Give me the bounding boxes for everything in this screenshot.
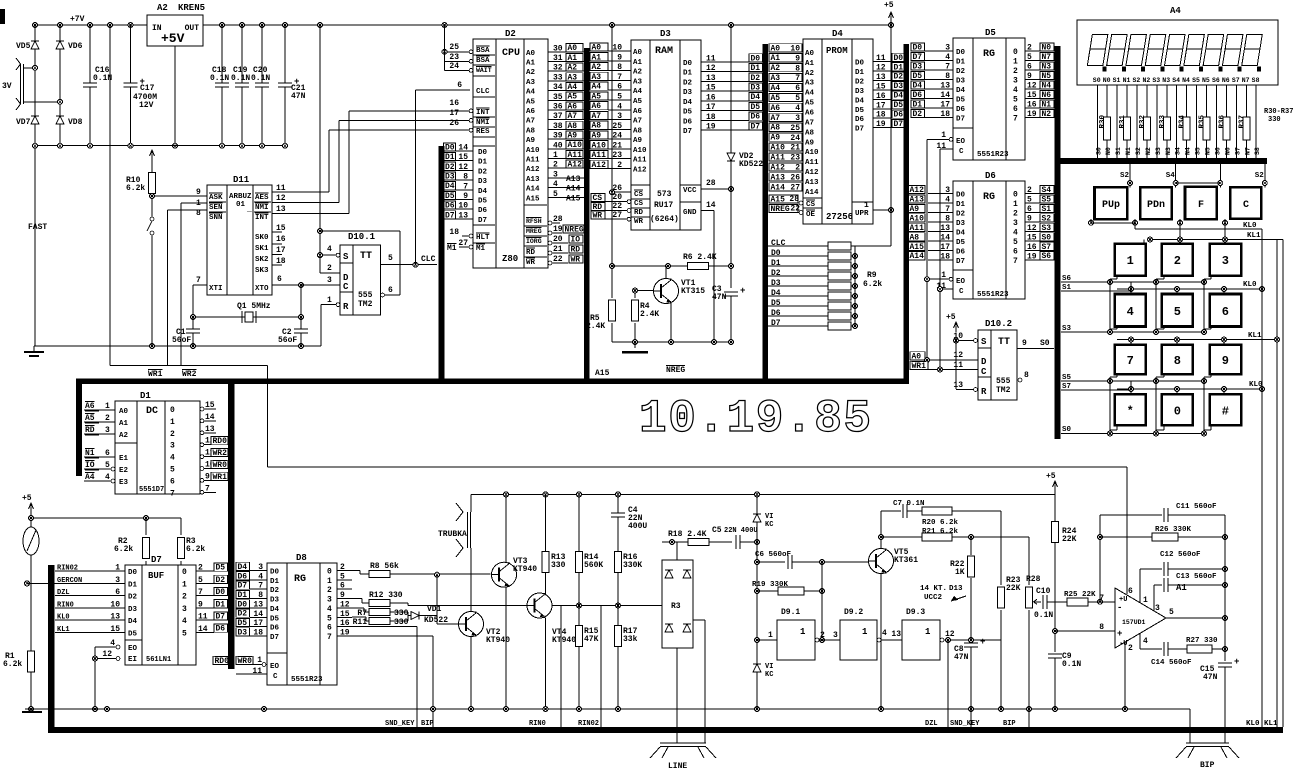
svg-text:D3: D3 [270,597,280,605]
svg-text:16: 16 [340,619,350,628]
svg-text:D7: D7 [478,217,487,225]
svg-text:A5: A5 [526,98,536,106]
svg-text:S2: S2 [1042,214,1052,223]
svg-text:D6: D6 [956,106,966,114]
svg-text:4: 4 [1143,637,1148,646]
svg-text:A8: A8 [568,122,578,131]
svg-text:A1: A1 [771,54,781,63]
IC D6 register 5551R23 [953,181,1025,299]
svg-text:D1: D1 [683,70,693,78]
wire C11 node vertical [1099,515,1101,602]
svg-text:D6: D6 [751,113,761,122]
svg-text:5: 5 [1013,96,1018,105]
svg-text:R30-R37: R30-R37 [1264,108,1293,116]
svg-text:N3: N3 [1162,77,1170,84]
svg-text:N3: N3 [1042,62,1052,71]
svg-text:N5: N5 [1042,72,1052,81]
wire BIP from D8 [352,635,433,637]
svg-text:8: 8 [1024,371,1029,380]
svg-text:6: 6 [1027,205,1032,214]
svg-text:TM2: TM2 [996,386,1011,395]
svg-text:4: 4 [170,454,175,463]
IC D7 buffer 561LN1 [125,565,196,665]
svg-text:WR: WR [571,255,581,264]
svg-text:6: 6 [1013,247,1018,256]
svg-text:D1: D1 [128,581,138,589]
svg-text:15: 15 [1027,91,1037,100]
svg-text:S: S [981,337,987,347]
svg-text:BSA: BSA [476,57,490,65]
svg-text:A6: A6 [805,109,815,117]
svg-text:12: 12 [706,64,716,73]
svg-text:10: 10 [790,44,800,53]
svg-text:D0: D0 [913,43,923,52]
wire D8 outputs [337,570,352,572]
svg-text:C17: C17 [140,84,155,93]
svg-text:D6: D6 [771,309,781,318]
bus D8 vertical V6 [228,379,235,669]
svg-text:D5: D5 [238,619,248,628]
svg-text:11: 11 [876,54,886,63]
svg-text:C11 560oF: C11 560oF [1176,503,1217,511]
svg-text:157UD1: 157UD1 [1122,619,1146,626]
svg-text:WR1: WR1 [912,362,927,371]
resistor R3 [180,518,182,535]
svg-text:KC: KC [765,521,773,529]
svg-text:S8: S8 [1252,77,1260,84]
svg-text:19: 19 [706,123,716,132]
svg-text:WR: WR [526,259,536,267]
svg-text:S4: S4 [1175,147,1182,155]
svg-text:A1: A1 [526,60,536,68]
svg-text:+5: +5 [22,494,32,503]
svg-text:D9.1: D9.1 [781,608,800,617]
svg-text:D5: D5 [270,615,280,623]
svg-text:INT: INT [476,109,490,117]
svg-text:1: 1 [925,627,931,637]
svg-text:D0: D0 [751,54,761,63]
svg-text:KL1: KL1 [1264,720,1278,728]
svg-text:8: 8 [795,64,800,73]
svg-text:A2: A2 [526,69,536,77]
wire D7 inputs [55,570,125,572]
svg-text:A3: A3 [568,73,578,82]
wire R12 to VT4 base [390,602,408,604]
capacitor C10 0.1N [1043,595,1048,609]
wire VT4 base row right [552,605,662,607]
svg-text:SEN: SEN [209,204,223,212]
svg-text:10: 10 [110,600,120,609]
svg-text:S0: S0 [1062,426,1072,434]
svg-text:330: 330 [394,609,409,618]
svg-text:A12: A12 [526,166,540,174]
svg-text:A10: A10 [568,141,583,150]
svg-text:A12: A12 [633,166,647,174]
svg-text:XTO: XTO [255,285,269,293]
wire R8 row [352,570,360,572]
svg-text:12: 12 [102,650,112,659]
svg-text:16: 16 [1027,101,1037,110]
svg-text:A0: A0 [526,50,536,58]
svg-text:9: 9 [1222,354,1229,368]
svg-text:6: 6 [340,582,345,591]
svg-text:S6: S6 [1042,252,1052,261]
svg-text:VCC: VCC [683,187,697,195]
svg-text:D2: D2 [505,29,516,39]
IC D4 PROM 27256 [803,39,873,224]
svg-text:22: 22 [612,202,622,211]
svg-text:D3: D3 [128,606,138,614]
svg-text:NREG: NREG [565,225,584,234]
svg-text:A7: A7 [568,112,578,121]
svg-text:0: 0 [170,406,175,415]
svg-text:A2: A2 [592,63,602,72]
svg-text:15: 15 [1027,233,1037,242]
svg-text:3: 3 [1155,604,1160,613]
svg-text:9: 9 [795,54,800,63]
svg-text:11: 11 [936,142,946,151]
svg-text:7: 7 [205,484,210,493]
svg-text:S5: S5 [1195,147,1202,155]
wire regulator ground [174,46,176,146]
svg-text:18: 18 [276,257,286,266]
svg-text:D5: D5 [478,198,488,206]
svg-text:6.2k: 6.2k [186,545,205,554]
capacitor C17 [130,25,132,146]
svg-text:KL0: KL0 [57,614,70,622]
svg-text:1K: 1K [955,568,965,577]
svg-text:A5: A5 [633,98,643,106]
svg-text:S6: S6 [1214,147,1221,155]
svg-text:19: 19 [1027,110,1037,119]
svg-text:23: 23 [790,154,800,163]
wire bridge top stub [676,542,678,560]
svg-text:3: 3 [833,631,838,640]
svg-text:R: R [981,387,987,397]
wire D5 output pins to bus [1025,50,1040,52]
svg-text:SND_KEY: SND_KEY [385,720,415,728]
resistor R5 [609,300,616,321]
svg-text:EO: EO [270,663,280,671]
svg-text:A13: A13 [805,179,819,187]
svg-text:A9: A9 [633,137,643,145]
resistor R14 560K [578,494,580,551]
svg-text:26: 26 [449,119,459,128]
wire keypad row2 top KL0 [1117,288,1262,290]
svg-text:D1: D1 [771,259,781,268]
svg-text:A9: A9 [526,137,536,145]
capacitor C12 560pF [1140,568,1162,570]
svg-text:D3: D3 [956,220,966,228]
bridge R3 [662,560,693,648]
svg-text:D7: D7 [238,582,248,591]
svg-text:A14: A14 [771,183,786,192]
svg-text:13: 13 [953,381,963,390]
resistor R10 [151,152,153,196]
svg-text:A8: A8 [592,122,602,131]
svg-text:D1: D1 [855,69,865,77]
svg-text:A15: A15 [566,194,581,203]
svg-text:S1: S1 [1042,205,1052,214]
svg-text:D0: D0 [238,600,248,609]
svg-text:VI: VI [765,663,773,671]
svg-text:D2: D2 [913,110,923,119]
svg-text:M1: M1 [447,244,457,253]
svg-text:D4: D4 [913,81,923,90]
bus keypad vertical V5 [1055,46,1061,439]
svg-text:2: 2 [1027,186,1032,195]
svg-text:5: 5 [1169,608,1174,617]
svg-text:A11: A11 [568,151,583,160]
svg-text:A11: A11 [910,224,925,233]
svg-text:14 KT.: 14 KT. [920,585,947,593]
svg-text:0: 0 [1013,48,1018,57]
button 4 [1115,294,1146,327]
svg-text:WR1: WR1 [148,370,163,379]
svg-text:A4: A4 [771,84,781,93]
svg-text:A12: A12 [568,161,583,170]
capacitor C16 [89,25,91,146]
svg-text:C: C [981,367,987,377]
svg-text:KL0: KL0 [1249,381,1263,389]
svg-text:6: 6 [115,588,120,597]
svg-text:5551R23: 5551R23 [977,291,1009,299]
diode VD5 [31,41,39,49]
svg-text:RD0: RD0 [215,657,230,666]
wire RAM address pins from bus [590,43,608,51]
capacitor C3 [724,292,738,297]
button # [1210,394,1242,425]
wire R21 to R28 [1028,537,1030,585]
svg-text:D2: D2 [956,211,966,219]
wire long control y467 [267,365,269,467]
svg-text:RD: RD [634,209,644,217]
svg-text:1: 1 [327,296,332,305]
7seg digit 7 [1206,35,1224,50]
ground mic [25,708,47,710]
svg-text:OUT: OUT [185,24,200,33]
wire RAM data pins to bus [701,61,749,63]
svg-text:R36: R36 [1218,115,1226,129]
svg-text:S2: S2 [1120,172,1130,180]
diode VI KC upper [756,494,758,542]
svg-text:KC: KC [765,671,773,679]
svg-text:A6: A6 [633,108,643,116]
svg-text:D5: D5 [128,630,138,638]
op-amp A1 157UD1 [1115,588,1166,648]
svg-text:D3: D3 [855,88,865,96]
svg-text:VI: VI [765,513,773,521]
svg-text:SK3: SK3 [255,267,269,275]
svg-text:WR1: WR1 [213,473,228,482]
svg-text:TRUBKA: TRUBKA [438,530,467,539]
svg-text:D5: D5 [894,101,904,110]
svg-text:27: 27 [790,183,800,192]
svg-text:S7: S7 [1042,243,1052,252]
svg-text:GERCON: GERCON [57,577,82,585]
svg-text:9: 9 [1027,214,1032,223]
svg-text:A9: A9 [910,205,920,214]
svg-text:A0: A0 [805,50,815,58]
svg-text:S8: S8 [1254,147,1261,155]
svg-text:D9.2: D9.2 [844,608,863,617]
svg-text:S0: S0 [1042,233,1052,242]
svg-text:NMI: NMI [476,119,490,127]
svg-text:KT361: KT361 [894,556,918,565]
button 7 [1115,345,1146,374]
svg-text:25: 25 [790,124,800,133]
svg-text:A13: A13 [771,173,786,182]
svg-text:R9: R9 [867,271,877,280]
button 3 [1210,244,1242,276]
wire SND_KEY from D8 [352,626,417,628]
7seg digit 2 [1109,35,1127,50]
svg-text:5: 5 [198,576,203,585]
svg-text:D4: D4 [956,87,966,95]
svg-text:5551R23: 5551R23 [291,676,323,684]
svg-text:RD: RD [593,203,603,212]
svg-text:+5: +5 [946,313,956,322]
svg-text:13: 13 [110,613,120,622]
svg-text:A7: A7 [805,119,814,127]
svg-text:D0: D0 [478,149,488,157]
svg-text:R18 2.4K: R18 2.4K [668,530,707,539]
wire +7V top rail [35,24,891,26]
svg-text:D: D [981,357,987,367]
svg-text:A3: A3 [526,79,536,87]
button PDn [1140,187,1172,219]
svg-text:A3: A3 [633,78,643,86]
svg-text:6.2k: 6.2k [114,545,133,554]
capacitor C13 560pF [1154,584,1162,586]
svg-text:6: 6 [170,477,175,486]
button PUp [1095,187,1128,219]
svg-text:12: 12 [276,194,286,203]
svg-text:N5: N5 [1205,147,1212,155]
svg-text:N7: N7 [1042,53,1052,62]
svg-text:13: 13 [876,73,886,82]
svg-text:A12: A12 [592,161,607,170]
svg-text:18: 18 [876,111,886,120]
svg-text:36: 36 [553,103,563,112]
svg-text:2: 2 [1027,44,1032,53]
wire +5 row R2 R3 [31,517,181,519]
svg-text:D7: D7 [751,122,761,131]
svg-text:KL0: KL0 [1243,281,1257,289]
svg-text:R31: R31 [1119,115,1127,129]
svg-text:A3: A3 [805,80,815,88]
svg-text:D0: D0 [445,143,455,152]
resistor R13 330 [542,552,549,573]
svg-text:D10.2: D10.2 [985,319,1012,329]
svg-text:9: 9 [340,591,345,600]
svg-text:01: 01 [236,201,246,209]
svg-text:D3: D3 [894,82,904,91]
svg-text:D6: D6 [985,171,996,181]
wire bridge bottom to LINE [676,648,678,743]
svg-text:27256: 27256 [826,212,853,222]
svg-text:0.1N: 0.1N [93,74,112,83]
transistor VT3 KT940 [492,562,517,587]
svg-text:S2: S2 [1133,77,1141,84]
svg-text:6.2k: 6.2k [3,660,22,669]
svg-text:1: 1 [800,627,806,637]
svg-text:R33: R33 [1159,115,1167,129]
svg-text:3: 3 [553,170,558,179]
button 9 [1210,345,1242,374]
svg-text:IORG: IORG [526,238,542,245]
wire D7 outputs to bus [196,570,214,572]
svg-text:R21 6.2k: R21 6.2k [922,528,959,536]
svg-text:35: 35 [553,93,563,102]
svg-text:D2: D2 [683,79,693,87]
svg-text:A1: A1 [805,60,815,68]
svg-text:D0: D0 [128,569,138,577]
svg-text:RG: RG [983,192,995,203]
svg-text:A10: A10 [805,149,819,157]
svg-text:9: 9 [198,600,203,609]
bus keypad horizontal H3 [1055,158,1268,164]
svg-text:EO: EO [128,645,138,653]
svg-text:47N: 47N [712,293,727,302]
svg-text:17: 17 [276,246,286,255]
diode VD6 [56,41,64,49]
wire function buttons bottom KL0 [1089,220,1094,225]
svg-text:ASK: ASK [209,194,223,202]
svg-text:14: 14 [706,201,716,210]
wire D8 EO RD0 WR0 [213,656,228,664]
svg-text:A6: A6 [568,102,578,111]
bus data vertical V3 [763,44,769,384]
svg-text:0.1N: 0.1N [1034,611,1053,620]
svg-text:XTI: XTI [209,285,223,293]
capacitor C20 [261,25,263,146]
svg-text:VD7: VD7 [16,118,31,127]
svg-text:HLT: HLT [476,234,490,242]
svg-text:D5: D5 [771,299,781,308]
svg-text:M1: M1 [476,245,486,253]
svg-text:A9: A9 [568,132,578,141]
svg-text:EO: EO [956,278,966,286]
transistor VT2 KT940 [459,612,484,637]
svg-text:6: 6 [795,84,800,93]
bus D5 input vertical V4 [904,44,910,384]
svg-text:S3: S3 [1042,224,1052,233]
svg-text:A4: A4 [1170,6,1181,16]
svg-text:#: # [1222,404,1229,418]
transistor VT4 KT940 [527,593,552,618]
svg-text:D5: D5 [751,103,761,112]
svg-text:24: 24 [449,62,459,71]
svg-text:A1: A1 [592,53,602,62]
capacitor C9 0.1N [1048,654,1062,659]
svg-text:56oF: 56oF [278,336,297,345]
svg-text:1: 1 [115,564,120,573]
svg-text:DZL: DZL [925,720,938,728]
svg-text:+: + [740,286,745,296]
svg-text:KT940: KT940 [513,565,537,574]
svg-text:A6: A6 [771,104,781,113]
svg-text:D0: D0 [855,59,865,67]
wire long vertical x110 [109,25,111,365]
svg-text:R30: R30 [1099,115,1107,129]
svg-text:13: 13 [891,630,901,639]
svg-text:R25 22K: R25 22K [1064,591,1096,599]
resistor R11 330 [352,616,366,618]
svg-text:KL1: KL1 [57,626,70,634]
resistor R21 6.2k [881,536,922,538]
svg-text:A1: A1 [568,54,578,63]
